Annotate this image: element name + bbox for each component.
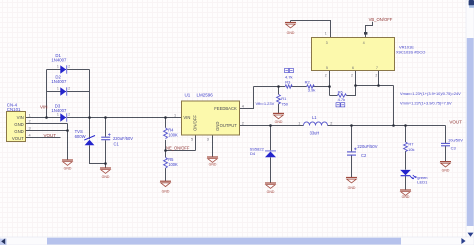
resistor R4: [164, 128, 168, 139]
svg-text:VIN: VIN: [40, 104, 48, 109]
junction C2 top: [350, 124, 353, 127]
horizontal scrollbar thumb: [47, 238, 401, 245]
capacitor C1: [101, 133, 110, 139]
svg-text:4: 4: [242, 105, 244, 109]
wire module pinM stub: [356, 71, 379, 86]
svg-text:2: 2: [29, 120, 31, 124]
svg-text:4.7k: 4.7k: [338, 97, 346, 102]
junction module riser at output: [392, 124, 395, 127]
svg-text:3.9k: 3.9k: [308, 87, 316, 92]
svg-text:D4: D4: [250, 151, 256, 156]
svg-text:GND: GND: [209, 163, 217, 167]
wire D1 branch: [47, 69, 90, 71]
svg-text:600W: 600W: [75, 134, 86, 139]
junction divider top: [164, 116, 167, 119]
wire U1 feedback pin4: [239, 87, 254, 109]
svg-text:GND: GND: [348, 186, 356, 190]
svg-text:2: 2: [242, 121, 244, 125]
svg-text:1: 1: [174, 114, 176, 118]
resistor R7: [404, 142, 408, 152]
wire diode ladder left rail: [46, 70, 48, 118]
wire NE_ON/OFF net: [166, 150, 196, 152]
wire CN ground drop: [67, 124, 69, 160]
LED LED1: [400, 170, 417, 180]
module U2 body: [312, 38, 395, 71]
ground D4 symbol: [265, 183, 276, 188]
svg-text:2: 2: [330, 122, 332, 126]
wire C3 stem: [445, 126, 447, 162]
wire U1 pin5 stub: [195, 135, 197, 151]
svg-text:Vfb=1.23V: Vfb=1.23V: [256, 101, 275, 106]
svg-text:5: 5: [326, 66, 328, 70]
svg-text:3: 3: [326, 41, 328, 45]
svg-text:6: 6: [352, 66, 354, 70]
svg-text:NE_ON/OFF: NE_ON/OFF: [166, 145, 190, 150]
capacitor C3: [441, 143, 450, 145]
svg-text:220uF/50V: 220uF/50V: [113, 136, 133, 141]
junction NE_ON/OFF: [164, 149, 167, 152]
capacitor C2: [347, 148, 357, 156]
svg-text:FEEDBACK: FEEDBACK: [214, 106, 237, 111]
ground U1 pin3 symbol: [207, 157, 218, 162]
vertical scrollbar thumb: [467, 38, 474, 226]
svg-text:GND: GND: [275, 120, 283, 124]
wire module top ground: [291, 21, 331, 38]
svg-text:10k: 10k: [408, 147, 414, 152]
vertical scrollbar track: [466, 0, 474, 237]
wire module pinL feedback stub: [329, 71, 331, 96]
svg-text:LM2596: LM2596: [197, 93, 214, 98]
wire CN pin3: [26, 130, 68, 132]
svg-text:2: 2: [325, 74, 327, 78]
svg-text:C2: C2: [361, 153, 367, 158]
horizontal scrollbar right arrow: [461, 238, 465, 244]
junction module FB pin: [328, 85, 331, 88]
svg-text:33uH: 33uH: [310, 130, 320, 135]
ground C3 symbol: [440, 162, 451, 167]
wire R6 branch: [330, 86, 356, 96]
svg-text:2: 2: [351, 74, 353, 78]
svg-text:1N4007: 1N4007: [51, 58, 67, 63]
wire R1 stem: [278, 87, 280, 114]
svg-text:1: 1: [298, 122, 300, 126]
ground module top symbol: [285, 23, 296, 28]
horizontal scrollbar track: [0, 237, 474, 245]
junction CN pins 2-3: [66, 129, 69, 132]
svg-text:1: 1: [57, 64, 59, 68]
svg-text:3: 3: [207, 138, 209, 142]
svg-text:GND: GND: [215, 122, 220, 131]
svg-text:4: 4: [363, 41, 365, 45]
svg-text:VOUT: VOUT: [449, 120, 462, 125]
wire U1 pin3 ground stub: [212, 135, 214, 157]
svg-text:Vmin=1.23*(1+3.9/0.75)=7.6V: Vmin=1.23*(1+3.9/0.75)=7.6V: [400, 101, 452, 106]
svg-text:220uF/50V: 220uF/50V: [357, 144, 377, 149]
junction C1 top: [104, 116, 107, 119]
wire module riser to output rail: [393, 86, 395, 126]
connector CN101 body: [7, 112, 26, 142]
wire D4 stem: [270, 126, 272, 183]
note reserved (CJK) above R3: [285, 68, 294, 72]
ground C2 symbol: [346, 178, 357, 183]
junction diode ladder right TVS: [88, 116, 91, 119]
svg-text:1: 1: [57, 86, 59, 90]
svg-text:5: 5: [191, 138, 193, 142]
svg-text:LED1: LED1: [417, 179, 428, 184]
svg-text:2: 2: [68, 112, 70, 116]
ground R5 symbol: [160, 181, 171, 186]
wire VB_ON/OFF stub: [366, 22, 373, 38]
svg-text:100K: 100K: [168, 133, 178, 138]
svg-text:1: 1: [57, 112, 59, 116]
junction D4 top: [269, 124, 272, 127]
ground CN101 symbol: [62, 160, 73, 165]
wire divider R4 R5 stem: [165, 118, 167, 182]
wire D2 branch: [47, 91, 90, 93]
svg-text:U1: U1: [185, 93, 191, 98]
svg-text:VIN: VIN: [17, 115, 24, 120]
svg-text:L1: L1: [312, 115, 317, 120]
wire diode ladder right rail: [89, 70, 91, 118]
horizontal scrollbar left arrow button: [0, 239, 7, 245]
ground R1 symbol: [273, 113, 284, 118]
wire module ground symbol stem: [290, 21, 292, 23]
schottky diode D4: [265, 151, 276, 157]
svg-text:100K: 100K: [168, 162, 178, 167]
ground LED1 symbol: [400, 190, 411, 195]
svg-text:R3: R3: [285, 79, 291, 84]
svg-text:VIN: VIN: [183, 115, 190, 120]
junction R1 top: [277, 85, 280, 88]
svg-text:GND: GND: [64, 167, 72, 171]
svg-text:1N4007: 1N4007: [51, 79, 67, 84]
wire CN pin4 stub: [26, 137, 61, 139]
svg-text:VB_ON/OFF: VB_ON/OFF: [369, 17, 393, 22]
svg-text:VOUT: VOUT: [12, 136, 24, 141]
diode D2: [60, 87, 66, 95]
diode D3: [60, 113, 66, 121]
wire CN pin2: [26, 123, 68, 125]
svg-text:1: 1: [29, 114, 31, 118]
svg-text:GND: GND: [14, 129, 24, 134]
wire C1 stem: [105, 118, 107, 168]
vertical scrollbar down arrow: [468, 233, 474, 237]
op IC U1 body: [182, 101, 240, 135]
note reserved (CJK) below R6: [336, 103, 345, 107]
junction C1 TVS bottom: [104, 162, 107, 165]
TVS diode symbol: [84, 136, 95, 146]
svg-text:OUTPUT: OUTPUT: [220, 123, 238, 128]
svg-text:1N4007: 1N4007: [51, 108, 67, 113]
inductor L1: [304, 122, 328, 126]
svg-text:2: 2: [68, 86, 70, 90]
resistor R2: [307, 85, 315, 88]
svg-text:2: 2: [68, 64, 70, 68]
svg-text:R2: R2: [305, 80, 311, 85]
svg-text:GND: GND: [287, 31, 295, 35]
svg-text:C1: C1: [114, 142, 120, 147]
svg-text:GND: GND: [14, 122, 24, 127]
wire module pinR stub: [379, 71, 394, 86]
svg-text:ON/OFF: ON/OFF: [192, 115, 197, 131]
svg-text:750: 750: [281, 101, 288, 106]
junction module pinM: [354, 84, 357, 87]
svg-text:X9C103S #DCO: X9C103S #DCO: [396, 50, 425, 55]
svg-text:Vmax=1.23*(1+(3.9+10)/0.75)=24: Vmax=1.23*(1+(3.9+10)/0.75)=24V: [400, 91, 461, 96]
svg-text:C3: C3: [451, 146, 457, 151]
svg-text:CN101: CN101: [7, 107, 21, 112]
module pin4 active-low mark: [364, 32, 367, 35]
svg-text:10u/50V: 10u/50V: [448, 137, 463, 142]
ground C1 TVS symbol: [100, 168, 111, 173]
svg-text:2: 2: [375, 74, 377, 78]
svg-text:1: 1: [325, 32, 327, 36]
svg-text:GND: GND: [162, 190, 170, 194]
diode D1: [60, 65, 66, 73]
junction R7 top: [404, 124, 407, 127]
svg-text:7: 7: [376, 66, 378, 70]
junction module pinR: [377, 84, 380, 87]
vertical scrollbar up arrow button: [469, 0, 474, 6]
wire R7 LED stem: [405, 126, 407, 190]
svg-text:3: 3: [29, 127, 31, 131]
resistor R3: [285, 85, 292, 88]
resistor R6: [337, 94, 346, 97]
svg-text:GND: GND: [267, 190, 275, 194]
svg-text:VOUT: VOUT: [44, 133, 57, 138]
wire main VIN rail: [26, 117, 182, 119]
resistor R1: [277, 94, 281, 104]
resistor R5: [164, 157, 168, 168]
wire feedback rail: [254, 86, 330, 88]
wire TVS stem: [90, 118, 106, 164]
wire U1 output rail: [239, 125, 446, 127]
svg-text:4: 4: [29, 134, 31, 138]
svg-text:GND: GND: [442, 168, 450, 172]
svg-text:GND: GND: [402, 195, 410, 199]
svg-text:GND: GND: [102, 175, 110, 179]
wire C2 stem: [351, 126, 353, 178]
svg-text:R7: R7: [408, 141, 414, 146]
junction diode ladder left: [45, 116, 48, 119]
